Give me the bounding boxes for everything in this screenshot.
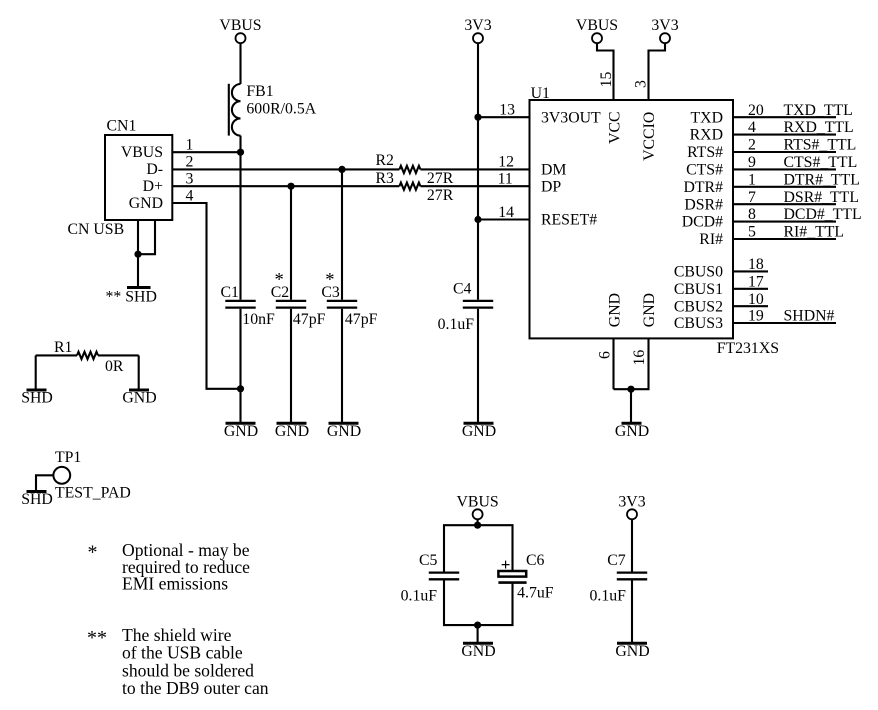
svg-text:DTR#_TTL: DTR#_TTL xyxy=(784,171,860,188)
test point TP1 xyxy=(53,449,130,502)
svg-text:600R/0.5A: 600R/0.5A xyxy=(246,100,316,117)
capacitor C3 plates xyxy=(327,301,357,308)
svg-text:TXD_TTL: TXD_TTL xyxy=(784,102,853,119)
svg-text:CTS#_TTL: CTS#_TTL xyxy=(784,154,858,171)
ground SHD xyxy=(21,491,53,508)
svg-text:47pF: 47pF xyxy=(293,311,326,328)
svg-text:C2: C2 xyxy=(271,284,290,301)
svg-text:GND: GND xyxy=(462,423,496,440)
capacitor C1 xyxy=(221,152,241,301)
U1 pin 7 / net DSR#_TTL xyxy=(684,189,859,214)
svg-text:CN1: CN1 xyxy=(107,118,137,135)
svg-text:CTS#: CTS# xyxy=(686,162,723,179)
svg-text:CN USB: CN USB xyxy=(68,221,125,238)
capacitor C6 (polarized) xyxy=(498,552,544,583)
capacitor C5 plates xyxy=(429,573,459,580)
svg-text:RI#_TTL: RI#_TTL xyxy=(784,224,845,241)
connector CN1 xyxy=(68,118,173,238)
svg-text:RTS#_TTL: RTS#_TTL xyxy=(784,137,857,154)
svg-text:EMI emissions: EMI emissions xyxy=(122,574,228,594)
power terminal 3V3 xyxy=(651,17,678,43)
svg-text:DSR#: DSR# xyxy=(684,196,723,213)
svg-text:18: 18 xyxy=(748,256,764,273)
U1 pin 4 / net RXD_TTL xyxy=(690,119,854,144)
svg-text:3V3: 3V3 xyxy=(618,494,645,511)
svg-text:TEST_PAD: TEST_PAD xyxy=(55,485,131,502)
junction C5/C6 bottom xyxy=(474,622,481,629)
junction C5/C6 top xyxy=(474,522,481,529)
wire R3 to DP xyxy=(420,185,529,187)
resistor body R2 xyxy=(399,166,420,173)
resistor R3 labels xyxy=(376,170,454,204)
svg-text:RXD_TTL: RXD_TTL xyxy=(784,119,854,136)
ground GND xyxy=(275,423,309,440)
wire R1 to SHD xyxy=(35,355,37,388)
svg-text:27R: 27R xyxy=(427,170,454,187)
svg-text:DM: DM xyxy=(541,162,566,179)
svg-text:C5: C5 xyxy=(419,552,438,569)
svg-text:VCC: VCC xyxy=(606,111,623,143)
junction 3V3/pin13 xyxy=(474,114,481,121)
svg-text:3V3OUT: 3V3OUT xyxy=(541,109,601,126)
svg-text:** SHD: ** SHD xyxy=(106,289,157,306)
svg-text:4: 4 xyxy=(186,187,194,204)
svg-text:DTR#: DTR# xyxy=(684,179,724,196)
svg-text:1: 1 xyxy=(748,171,756,188)
svg-text:13: 13 xyxy=(499,102,515,119)
svg-text:VBUS: VBUS xyxy=(121,144,163,161)
capacitor C3 xyxy=(321,169,342,301)
ground GND xyxy=(615,643,649,660)
svg-text:C7: C7 xyxy=(607,552,626,569)
svg-text:3: 3 xyxy=(633,80,650,88)
svg-text:CBUS0: CBUS0 xyxy=(674,264,723,281)
svg-text:10: 10 xyxy=(748,291,764,308)
svg-text:C6: C6 xyxy=(526,552,545,569)
wire C7 bottom xyxy=(631,580,633,642)
wire U1 GND down xyxy=(630,389,632,422)
svg-text:3V3: 3V3 xyxy=(464,17,491,34)
svg-text:7: 7 xyxy=(748,189,756,206)
junction shield stubs xyxy=(134,251,141,258)
svg-text:DCD#_TTL: DCD#_TTL xyxy=(784,206,862,223)
svg-text:27R: 27R xyxy=(427,187,454,204)
svg-text:1: 1 xyxy=(186,136,194,153)
svg-text:2: 2 xyxy=(748,137,756,154)
svg-text:17: 17 xyxy=(748,273,764,290)
svg-text:C1: C1 xyxy=(221,284,239,301)
note double asterisk xyxy=(87,625,269,698)
svg-text:8: 8 xyxy=(748,206,756,223)
svg-text:CBUS1: CBUS1 xyxy=(674,281,723,298)
svg-text:6: 6 xyxy=(597,351,614,359)
svg-text:0.1uF: 0.1uF xyxy=(401,587,438,604)
svg-text:15: 15 xyxy=(598,72,615,88)
wire R1 left xyxy=(36,354,77,356)
svg-text:GND: GND xyxy=(327,423,361,440)
svg-text:RXD: RXD xyxy=(690,127,723,144)
U1 pin 2 / net RTS#_TTL xyxy=(687,137,856,162)
U1 pin 18 (CBUS0) xyxy=(674,256,768,281)
junction D+/C2 xyxy=(287,183,294,190)
svg-text:3: 3 xyxy=(186,170,194,187)
wire CN1 shield stub left xyxy=(137,220,139,287)
power terminal VBUS xyxy=(576,17,618,43)
svg-text:47pF: 47pF xyxy=(345,311,378,328)
ground GND xyxy=(461,643,495,660)
svg-text:5: 5 xyxy=(748,224,756,241)
capacitor C1 plates xyxy=(225,301,255,308)
svg-text:GND: GND xyxy=(275,423,309,440)
svg-text:4.7uF: 4.7uF xyxy=(517,584,554,601)
junction VBUS/FB1/C1 xyxy=(237,149,244,156)
svg-text:CBUS3: CBUS3 xyxy=(674,315,723,332)
power terminal VBUS xyxy=(457,494,499,520)
ground SHD below CN1 xyxy=(106,288,157,306)
svg-text:CBUS2: CBUS2 xyxy=(674,298,723,315)
capacitor C4 plates xyxy=(463,301,493,308)
svg-text:GND: GND xyxy=(122,390,156,407)
wire CN1 shield stub right xyxy=(138,220,155,254)
wire RESET# stub xyxy=(478,218,530,220)
wire C7 top xyxy=(631,519,633,572)
svg-text:SHD: SHD xyxy=(21,491,53,508)
svg-text:C4: C4 xyxy=(453,281,472,298)
ground GND xyxy=(327,423,361,440)
wire R1 to GND xyxy=(138,355,140,388)
wire 3V3OUT stub xyxy=(478,116,530,118)
wire 3V3 to VCCIO pin 3 xyxy=(649,43,666,100)
wire VBUS stub xyxy=(477,519,479,525)
svg-text:TP1: TP1 xyxy=(55,449,81,466)
svg-text:20: 20 xyxy=(748,102,764,119)
U1 pin 8 / net DCD#_TTL xyxy=(682,206,862,231)
svg-text:16: 16 xyxy=(631,350,648,366)
svg-text:C3: C3 xyxy=(321,284,340,301)
svg-text:VCCIO: VCCIO xyxy=(641,112,658,161)
ground SHD xyxy=(21,390,53,407)
wire GND pin 16 xyxy=(614,338,649,389)
resistor R2 labels xyxy=(376,152,454,187)
svg-text:R3: R3 xyxy=(376,170,395,187)
U1 pin 10 (CBUS2) xyxy=(674,291,768,316)
svg-text:VBUS: VBUS xyxy=(457,494,499,511)
svg-text:VBUS: VBUS xyxy=(219,17,261,34)
junction U1 GND xyxy=(627,386,634,393)
svg-text:4: 4 xyxy=(748,119,756,136)
resistor body R3 xyxy=(399,183,420,190)
U1 pin 5 / net RI#_TTL xyxy=(699,224,844,249)
svg-text:2: 2 xyxy=(186,154,194,171)
svg-text:**: ** xyxy=(87,627,107,649)
svg-text:GND: GND xyxy=(224,423,258,440)
svg-text:SHD: SHD xyxy=(21,390,53,407)
CN1 pin 1 xyxy=(172,136,240,153)
ground GND xyxy=(615,423,649,440)
svg-text:SHDN#: SHDN# xyxy=(784,308,835,325)
svg-text:FT231XS: FT231XS xyxy=(717,340,779,357)
svg-text:*: * xyxy=(88,542,98,564)
svg-text:9: 9 xyxy=(748,154,756,171)
svg-text:TXD: TXD xyxy=(691,109,723,126)
svg-text:14: 14 xyxy=(498,204,514,221)
junction C1/CN1 pin4 xyxy=(237,385,244,392)
capacitor C2 xyxy=(271,186,291,301)
svg-text:RTS#: RTS# xyxy=(687,144,723,161)
svg-text:0.1uF: 0.1uF xyxy=(438,316,475,333)
junction 3V3/RESET xyxy=(474,216,481,223)
svg-text:GND: GND xyxy=(615,643,649,660)
svg-text:RESET#: RESET# xyxy=(541,212,597,229)
capacitor C7 plates xyxy=(617,573,647,580)
wire C5/C6 top rail xyxy=(444,525,513,572)
wire C4 to GND xyxy=(477,309,479,422)
wire GND pin 6 xyxy=(612,338,614,389)
svg-text:FB1: FB1 xyxy=(246,83,273,100)
power terminal VBUS xyxy=(219,17,261,43)
svg-text:GND: GND xyxy=(129,195,163,212)
CN1 pin 3 (D+) xyxy=(172,170,399,187)
svg-text:R1: R1 xyxy=(54,339,72,356)
svg-text:to the DB9 outer can: to the DB9 outer can xyxy=(122,678,269,698)
U1 pin 17 (CBUS1) xyxy=(674,273,768,298)
svg-text:10nF: 10nF xyxy=(242,311,275,328)
svg-text:3V3: 3V3 xyxy=(651,17,678,34)
wire R2 to DM xyxy=(420,168,529,170)
svg-text:D+: D+ xyxy=(143,178,163,195)
svg-text:0R: 0R xyxy=(105,358,124,375)
power terminal 3V3 xyxy=(618,494,645,520)
svg-text:GND: GND xyxy=(461,643,495,660)
svg-text:DSR#_TTL: DSR#_TTL xyxy=(784,189,859,206)
wire FB1 to node VBUS_F xyxy=(239,136,241,153)
svg-text:U1: U1 xyxy=(531,85,550,102)
svg-text:GND: GND xyxy=(615,423,649,440)
svg-text:0.1uF: 0.1uF xyxy=(590,587,627,604)
note single asterisk xyxy=(88,540,251,594)
wire VBUS to VCC pin 15 xyxy=(597,43,614,100)
IC U1 FT231XS body xyxy=(530,85,780,357)
CN1 pin 4 (GND) xyxy=(172,187,240,388)
svg-text:R2: R2 xyxy=(376,152,395,169)
svg-text:RI#: RI# xyxy=(699,231,723,248)
wire C5/C6 bottom rail xyxy=(444,580,513,625)
wire R1 right xyxy=(98,354,139,356)
ground GND xyxy=(462,423,496,440)
U1 left pin names xyxy=(541,109,601,228)
wire to GND xyxy=(477,625,479,642)
svg-text:DCD#: DCD# xyxy=(682,214,723,231)
U1 pin 19 (CBUS3) xyxy=(674,308,836,333)
resistor R1 labels xyxy=(54,339,124,375)
wire C3 to GND xyxy=(341,309,343,422)
svg-text:19: 19 xyxy=(748,308,764,325)
wire C2 to GND xyxy=(290,309,292,422)
svg-text:11: 11 xyxy=(498,170,513,187)
svg-text:GND: GND xyxy=(641,293,658,327)
ground GND xyxy=(224,423,258,440)
power terminal 3V3 xyxy=(464,17,491,43)
wire 3V3 rail xyxy=(477,43,479,300)
svg-text:DP: DP xyxy=(541,178,561,195)
ferrite bead FB1 xyxy=(229,83,317,135)
U1 pin 1 / net DTR#_TTL xyxy=(684,171,860,196)
svg-text:GND: GND xyxy=(606,293,623,327)
wire TP1 to SHD xyxy=(36,475,53,490)
svg-text:VBUS: VBUS xyxy=(576,17,618,34)
ground GND xyxy=(122,390,156,407)
wire VBUS to FB1 xyxy=(239,43,241,84)
capacitor C2 plates xyxy=(276,301,306,308)
svg-text:D-: D- xyxy=(146,161,163,178)
wire C1 to GND xyxy=(239,309,241,422)
U1 pin 9 / net CTS#_TTL xyxy=(686,154,857,179)
CN1 pin 2 (D-) xyxy=(172,154,399,171)
svg-text:12: 12 xyxy=(498,154,514,171)
resistor body R1 xyxy=(77,352,98,359)
U1 pin 20 / net TXD_TTL xyxy=(691,102,853,127)
junction D-/C3 xyxy=(338,166,345,173)
